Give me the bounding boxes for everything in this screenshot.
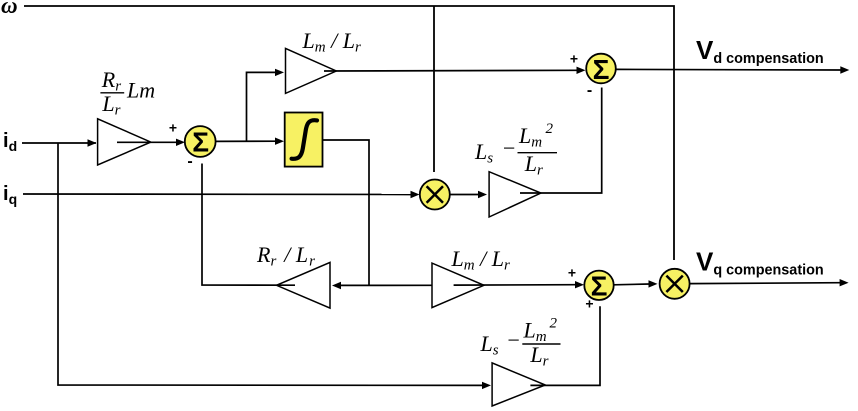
wire G2 output to summer S2 [324, 69, 578, 72]
wire G3 output up to S2 minus input [520, 88, 602, 194]
arrowhead into S2 [577, 67, 586, 74]
wire M2 output Vq [690, 282, 841, 285]
arrowhead into integrator [275, 138, 284, 145]
summer S3 circle (Vq) [584, 271, 613, 300]
gain block G5 Lm/Lr lower triangle [432, 263, 484, 308]
wire id input lead [22, 142, 96, 144]
wire id branch down and bottom run [58, 143, 483, 385]
label G3 value Ls minus Lm squared over Lr [474, 121, 557, 179]
arrowhead Vq output [840, 279, 849, 286]
svg-text:-: - [187, 153, 192, 170]
arrowhead into S1 [176, 139, 185, 146]
arrowhead into G2 [275, 69, 284, 76]
svg-text:Σ: Σ [192, 126, 209, 157]
svg-text:ω: ω [1, 0, 18, 18]
svg-text:-: - [587, 82, 592, 99]
wire G5 output to summer S3 [454, 284, 577, 286]
arrowhead into G3 [478, 191, 487, 198]
arrowhead into S3 [575, 281, 584, 288]
multiplier M1 circle [420, 180, 450, 210]
arrowhead into G6 [482, 382, 491, 389]
svg-text:+: + [570, 51, 578, 67]
svg-text:Rr / Lr: Rr / Lr [256, 242, 315, 270]
multiplier M2 circle [660, 269, 690, 299]
wire integrator output drop [321, 140, 369, 285]
label G1 value Rr/Lr Lm [100, 67, 155, 119]
wire omega top line with right drop [24, 6, 674, 260]
wire M1 output to G3 [450, 194, 480, 196]
arrowhead Vd output [840, 66, 849, 73]
arrowhead into M1 [411, 191, 420, 198]
svg-text:+: + [585, 296, 593, 312]
svg-text:2: 2 [546, 121, 554, 137]
arrowhead into M2 [649, 280, 658, 287]
wire G1 output to summer S1 [117, 141, 178, 143]
arrowhead into G1 [88, 139, 97, 146]
summer S2 circle (Vd) [586, 54, 616, 84]
gain block G6 Ls-Lm2/Lr lower triangle [492, 363, 545, 406]
label G6 value Ls minus Lm squared over Lr [480, 316, 561, 370]
wire feedback run to G5 [339, 284, 432, 286]
wire iq input lead [23, 193, 412, 196]
gain block G3 Ls-Lm2/Lr upper triangle [489, 172, 541, 217]
gain block G1 (Rr/Lr)Lm triangle [98, 119, 151, 165]
svg-text:+: + [169, 120, 177, 136]
wire G6 output up to S3 plus input [530, 306, 600, 385]
svg-text:Lm / Lr: Lm / Lr [451, 246, 510, 274]
wire S1 output to integrator [216, 140, 278, 142]
svg-text:−: − [502, 136, 517, 161]
wire S3 output to multiplier M2 [614, 283, 650, 286]
integrator U1 box [285, 113, 323, 167]
svg-text:Σ: Σ [593, 54, 610, 85]
gain block G2 Lm/Lr top triangle [286, 48, 337, 93]
wire S1 minus drop to G4 output [202, 164, 295, 286]
summer S1 circle [185, 126, 216, 157]
wire omega branch drop to multiplier M1 [433, 6, 435, 172]
svg-text:+: + [568, 265, 576, 281]
svg-text:Lm: Lm [126, 78, 155, 103]
gain block G4 Rr/Lr feedback triangle (points left) [277, 262, 331, 308]
wire branch up to G2 [247, 72, 278, 141]
svg-text:Lm / Lr: Lm / Lr [302, 28, 361, 56]
svg-text:−: − [506, 328, 521, 353]
arrowhead into G4 (points left) [332, 282, 341, 289]
svg-text:2: 2 [550, 316, 558, 332]
wire S2 output Vd [616, 68, 842, 71]
